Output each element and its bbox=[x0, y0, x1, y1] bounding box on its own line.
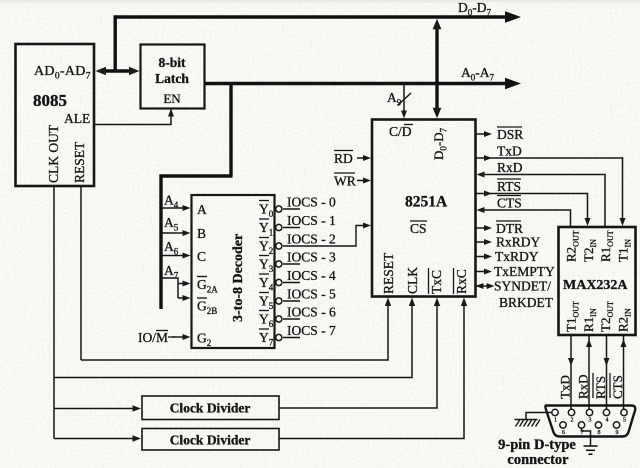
svg-text:TxD: TxD bbox=[497, 144, 522, 159]
wire: IOCS-5 stub bbox=[283, 300, 300, 302]
wire: A4 input to decoder bbox=[161, 207, 186, 209]
arrowhead: RxD into 8251A bbox=[477, 172, 485, 178]
arrowhead: R1in up bbox=[586, 339, 592, 347]
wire: A bus tap horizontal jog bbox=[160, 174, 233, 177]
wire: A6 input to decoder bbox=[161, 255, 186, 257]
wire: DB9 pin7 to signal ground bbox=[582, 429, 591, 446]
wire: RESET horizontal to 8251A riser bbox=[81, 302, 388, 360]
svg-text:7: 7 bbox=[581, 430, 584, 436]
arrowhead: TxRDY out bbox=[484, 254, 492, 260]
arrowhead: into clock divider 2 bbox=[133, 435, 142, 441]
arrowhead: T1out down bbox=[568, 358, 574, 366]
scan edge shading top bbox=[0, 0, 640, 3]
svg-text:RxC: RxC bbox=[454, 269, 469, 294]
wire: TxRDY stub bbox=[476, 256, 488, 258]
DB9 pin 1 bbox=[552, 409, 558, 423]
wire: A bus tap vertical from address bus bbox=[229, 84, 232, 177]
wire: D bus left vertical drop to AD line bbox=[113, 15, 116, 71]
svg-text:connector: connector bbox=[507, 452, 569, 468]
arrowhead: CLK into 8251A bbox=[409, 298, 415, 307]
wire: DSR stub bbox=[476, 133, 488, 135]
DB9 pin 3 bbox=[586, 409, 592, 423]
wire: IO/M to G2 bbox=[172, 336, 186, 338]
chassis ground symbol bbox=[515, 420, 541, 427]
wire: WR stub into 8251A bbox=[357, 180, 367, 182]
wire: TxD to MAX232A T1in bbox=[476, 158, 623, 221]
arrowhead: A7 into G2A bbox=[183, 281, 191, 287]
svg-text:6: 6 bbox=[562, 430, 565, 436]
svg-text:RxD: RxD bbox=[497, 160, 523, 175]
arrowhead: SYNDET left bbox=[476, 283, 484, 289]
svg-text:1: 1 bbox=[554, 418, 557, 424]
inverting bubble Y7 bbox=[276, 334, 282, 340]
svg-text:TxD: TxD bbox=[558, 375, 573, 399]
arrowhead: DTR out bbox=[484, 225, 492, 231]
svg-text:8-bit: 8-bit bbox=[159, 55, 187, 70]
wire: RxD from MAX232A R1out bbox=[481, 175, 605, 228]
wire: ALE from 8085 to latch EN bbox=[95, 110, 171, 125]
wire: clock divider 1 output to TxC bbox=[279, 302, 437, 408]
inverting bubble Y0 bbox=[276, 206, 282, 212]
svg-text:CTS: CTS bbox=[497, 196, 522, 211]
svg-text:Latch: Latch bbox=[155, 71, 189, 86]
arrowhead: WR into 8251A bbox=[363, 178, 371, 184]
arrowhead: AD line left (into 8085) bbox=[96, 67, 107, 75]
wire: IOCS-7 stub bbox=[283, 337, 300, 339]
wire: AD0-AD7 line 8085 to latch bbox=[101, 69, 135, 72]
wire: A0-A7 address bus horizontal bbox=[205, 82, 509, 85]
svg-text:B: B bbox=[197, 226, 206, 241]
arrowhead: RTS wire down into T2in bbox=[585, 218, 591, 226]
wire: IOCS-1 stub bbox=[283, 227, 300, 229]
wire: IOCS-2 to 8251A CS bbox=[283, 226, 367, 247]
8-bit latch box bbox=[141, 45, 205, 109]
arrowhead: A4 into decoder bbox=[183, 205, 191, 211]
svg-text:RxRDY: RxRDY bbox=[496, 235, 541, 250]
arrowhead: A6 into decoder bbox=[183, 253, 191, 259]
microprocessor 8085 box bbox=[16, 44, 95, 186]
arrowhead: RD into 8251A bbox=[363, 155, 371, 161]
wire: CLK branch to 8251A CLK bbox=[54, 302, 412, 378]
wire: RTS to MAX232A T2in bbox=[476, 194, 588, 222]
arrowhead: IOCS-2 into CS bbox=[363, 223, 371, 229]
wire: CLK branch into clock divider 2 bbox=[54, 438, 137, 440]
3-to-8 decoder box bbox=[192, 195, 275, 348]
arrowhead: A0-A7 bus right bbox=[505, 78, 521, 90]
arrowhead: D bus up into data bus bbox=[433, 19, 442, 30]
svg-text:IOCS - 6: IOCS - 6 bbox=[287, 305, 336, 320]
arrowhead: TxC into 8251A bbox=[434, 298, 440, 307]
svg-text:A0-A7: A0-A7 bbox=[461, 65, 495, 83]
svg-text:RESET: RESET bbox=[72, 141, 87, 183]
wire: R1in from DB9 pin3 bbox=[588, 335, 590, 409]
svg-text:RTS: RTS bbox=[497, 179, 521, 194]
svg-text:IOCS - 4: IOCS - 4 bbox=[287, 268, 336, 283]
svg-text:MAX232A: MAX232A bbox=[563, 278, 628, 293]
signal ground symbol bbox=[584, 446, 598, 454]
wire: T1out to DB9 pin2 bbox=[570, 335, 572, 409]
arrowhead: RxRDY out bbox=[484, 239, 492, 245]
svg-text:TxEMPTY: TxEMPTY bbox=[494, 264, 555, 279]
arrowhead: RxC into 8251A bbox=[461, 298, 467, 307]
svg-text:CTS: CTS bbox=[610, 375, 625, 399]
svg-text:C/D: C/D bbox=[389, 124, 412, 139]
svg-text:TxRDY: TxRDY bbox=[495, 249, 539, 264]
svg-text:CLK: CLK bbox=[405, 267, 420, 294]
svg-text:3: 3 bbox=[589, 418, 592, 424]
svg-text:RESET: RESET bbox=[381, 252, 396, 294]
inverting bubble Y2 bbox=[276, 243, 282, 249]
svg-text:DSR: DSR bbox=[497, 127, 523, 142]
svg-text:EN: EN bbox=[163, 91, 181, 106]
svg-text:IOCS - 1: IOCS - 1 bbox=[287, 213, 336, 228]
svg-text:IOCS - 2: IOCS - 2 bbox=[287, 232, 336, 247]
svg-text:CLK OUT: CLK OUT bbox=[46, 124, 61, 183]
clock divider 2 box bbox=[142, 429, 279, 451]
DB9 pin 7 bbox=[578, 422, 584, 436]
inverting bubble Y4 bbox=[276, 279, 282, 285]
wire: D bus vertical into 8251A bbox=[435, 23, 438, 113]
svg-text:5: 5 bbox=[623, 418, 626, 424]
wire: A bus tap vertical to decoder inputs bbox=[159, 175, 162, 310]
arrowhead: AD line right (into latch) bbox=[129, 67, 140, 75]
wire: SYNDET stub bbox=[476, 285, 491, 287]
wire: RD stub into 8251A bbox=[357, 157, 367, 159]
svg-text:8251A: 8251A bbox=[405, 194, 448, 211]
arrowhead: into clock divider 1 bbox=[133, 405, 142, 411]
svg-text:ALE: ALE bbox=[64, 111, 90, 126]
wire: CLK OUT vertical from 8085 bbox=[53, 187, 55, 439]
slash tick on A9 wire bbox=[398, 93, 411, 105]
arrowhead: R2in up bbox=[621, 339, 627, 347]
svg-text:8: 8 bbox=[598, 430, 601, 436]
arrowhead: IO/M into G2 bbox=[183, 334, 191, 340]
wire: R2in from DB9 pin5 bbox=[623, 335, 625, 409]
svg-text:C: C bbox=[197, 249, 206, 264]
arrowhead: RESET into 8251A bbox=[385, 298, 391, 307]
wire: IOCS-3 stub bbox=[283, 263, 300, 265]
arrowhead: DSR out bbox=[484, 131, 492, 137]
arrowhead: TxEMPTY out bbox=[484, 269, 492, 275]
wire: T2out to DB9 pin4 bbox=[606, 335, 608, 409]
svg-text:IO/M: IO/M bbox=[138, 330, 168, 345]
arrowhead: ALE into latch EN bbox=[168, 109, 174, 117]
wire: A9 tap down to C/D pin bbox=[403, 85, 405, 114]
svg-text:RTS: RTS bbox=[593, 376, 608, 399]
inverting bubble Y3 bbox=[276, 261, 282, 267]
svg-text:Clock Divider: Clock Divider bbox=[170, 433, 251, 448]
svg-text:9: 9 bbox=[616, 430, 619, 436]
inverting bubble Y6 bbox=[276, 316, 282, 322]
wire: RxRDY stub bbox=[476, 241, 488, 243]
arrowhead: T2out down bbox=[604, 358, 610, 366]
wire: clock divider 2 output to RxC bbox=[279, 302, 464, 439]
arrowhead: TxD wire down into T1in bbox=[620, 218, 626, 226]
svg-text:A: A bbox=[197, 202, 207, 217]
clock divider 1 box bbox=[142, 396, 279, 420]
DB9 pin 9 bbox=[613, 422, 619, 436]
svg-text:RD: RD bbox=[334, 151, 353, 166]
wire: CTS from MAX232A R2out bbox=[481, 210, 571, 227]
svg-text:8085: 8085 bbox=[33, 91, 67, 110]
9-pin D-type connector body bbox=[545, 406, 635, 437]
USART 8251A box bbox=[372, 120, 476, 297]
DB9 pin 4 bbox=[603, 409, 609, 423]
wire: D0-D7 data bus horizontal bbox=[115, 15, 508, 18]
svg-text:3-to-8 Decoder: 3-to-8 Decoder bbox=[231, 234, 246, 322]
svg-text:WR: WR bbox=[334, 174, 356, 189]
arrowhead: TxD out bbox=[484, 155, 492, 161]
arrowhead: D bus down into 8251A bbox=[433, 108, 442, 119]
svg-text:AD0-AD7: AD0-AD7 bbox=[34, 64, 91, 82]
wire: IOCS-4 stub bbox=[283, 282, 300, 284]
arrowhead: A7 into G2B bbox=[183, 295, 191, 301]
svg-text:SYNDET/: SYNDET/ bbox=[494, 279, 551, 294]
svg-text:IOCS - 0: IOCS - 0 bbox=[287, 195, 336, 210]
wire: CLK branch into clock divider 1 bbox=[54, 408, 137, 410]
svg-text:Clock Divider: Clock Divider bbox=[170, 401, 251, 416]
wire: RESET vertical from 8085 bbox=[80, 187, 82, 360]
MAX232A box bbox=[559, 227, 636, 335]
DB9 pin 8 bbox=[595, 422, 601, 436]
svg-text:4: 4 bbox=[606, 418, 609, 424]
arrowhead: D0-D7 bus right bbox=[505, 11, 521, 23]
svg-text:2: 2 bbox=[571, 418, 574, 424]
svg-text:9-pin D-type: 9-pin D-type bbox=[498, 437, 576, 453]
svg-text:CS: CS bbox=[410, 221, 427, 236]
inverting bubble Y1 bbox=[276, 224, 282, 230]
wire: TxEMPTY stub bbox=[476, 271, 488, 273]
arrowhead: SYNDET right bbox=[487, 283, 495, 289]
svg-text:TxC: TxC bbox=[429, 270, 444, 294]
wire: DB9 pin1 to chassis ground bbox=[526, 413, 551, 420]
DB9 pin 5 bbox=[621, 409, 627, 423]
wire: DTR stub bbox=[476, 227, 488, 229]
arrowhead: RTS out bbox=[484, 191, 492, 197]
svg-text:BRKDET: BRKDET bbox=[499, 295, 554, 310]
wire: IOCS-0 stub bbox=[283, 208, 300, 210]
DB9 pin 6 bbox=[560, 422, 566, 436]
arrowhead: A9 into 8251A bbox=[401, 111, 407, 119]
arrowhead: A5 into decoder bbox=[183, 230, 191, 236]
svg-text:IOCS - 3: IOCS - 3 bbox=[287, 250, 336, 265]
wire: A7 input split to G2A G2B bbox=[161, 278, 186, 298]
inverting bubble Y5 bbox=[276, 298, 282, 304]
svg-text:IOCS - 7: IOCS - 7 bbox=[287, 323, 336, 338]
wire: IOCS-6 stub bbox=[283, 318, 300, 320]
wire: A5 input to decoder bbox=[161, 232, 186, 234]
svg-text:D0-D7: D0-D7 bbox=[458, 0, 492, 18]
arrowhead: CTS into 8251A bbox=[477, 207, 485, 213]
DB9 pin 2 bbox=[568, 409, 574, 423]
svg-text:IOCS - 5: IOCS - 5 bbox=[287, 287, 336, 302]
svg-text:RxD: RxD bbox=[576, 374, 591, 399]
